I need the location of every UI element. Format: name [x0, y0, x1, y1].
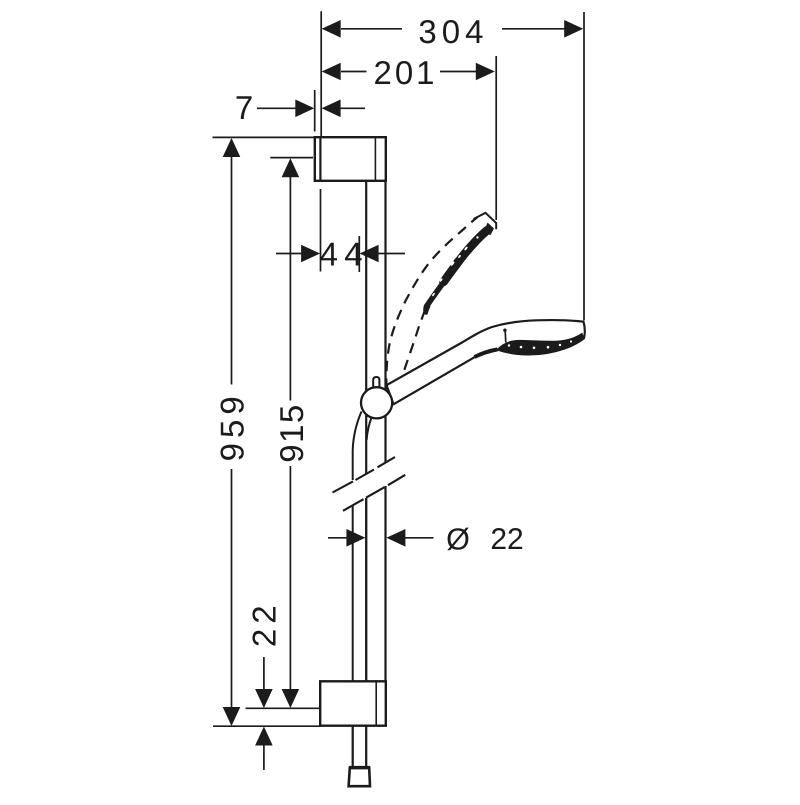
white nicks in raised stipple band [432, 236, 479, 296]
slider knob circle [361, 387, 392, 418]
arrowhead 959 top [223, 138, 241, 157]
spray select button tick [504, 331, 507, 343]
slider knob pin [373, 377, 379, 388]
dimension line 304 [341, 28, 402, 30]
dimension line 22 vertical [263, 657, 265, 690]
rail lower segment (break to bottom bracket) [366, 486, 385, 681]
svg-text:959: 959 [213, 391, 250, 461]
lowered head spray face stipple band [498, 333, 585, 355]
rail upper segment (bracket to break) [366, 181, 385, 474]
extension line left (wall plane x=321) [320, 11, 322, 137]
arrowhead 304 right [564, 20, 583, 38]
top wall bracket [315, 137, 386, 181]
hose from slider to break [353, 412, 372, 481]
svg-text:915: 915 [273, 403, 310, 463]
arrowhead 915 top [282, 158, 300, 177]
arrowhead 22 top (points down) [255, 689, 273, 708]
raised band lower tail blob [423, 303, 430, 315]
arrowhead dia22 right [386, 529, 405, 547]
arrowhead 201 left [322, 63, 341, 81]
extension line right for 201 (x=496) [495, 56, 497, 220]
dimension line diameter 22 [328, 537, 347, 539]
dimension line 44 [276, 253, 302, 255]
reference line top (y=137) [213, 136, 315, 138]
raised band top wedge to tip [484, 223, 495, 236]
hose below bottom bracket [353, 726, 367, 766]
arrowhead 915 bottom [282, 689, 300, 708]
svg-text:7: 7 [235, 89, 253, 126]
nut thick top edge [349, 766, 370, 769]
reference line 915 top (y=157.6) [270, 157, 313, 159]
raised handshower: spray face stipple band [444, 230, 488, 282]
raised handshower: dashed left curve [386, 217, 477, 389]
arrowhead 22 bottom (points up) [255, 727, 273, 746]
arrowhead 304 left [322, 20, 341, 38]
dimension line 7 [257, 107, 297, 109]
reference line A bottom (y=708.3) [246, 707, 321, 709]
white speckles in lowered stipple band [508, 340, 572, 349]
raised handshower: solid tip [474, 213, 497, 229]
raised handshower: dashed right curve [401, 302, 429, 382]
lowered handshower body (handle + head), white filled [387, 320, 585, 404]
reference line B bottom (y=726.2) [213, 725, 321, 727]
pipe break symbol (two diagonal lines) [333, 457, 406, 511]
svg-text:Ø: Ø [446, 522, 470, 556]
extension line right for 304 (x=584) [583, 12, 585, 321]
svg-text:201: 201 [373, 54, 437, 91]
dark chin stroke under head [475, 349, 498, 357]
svg-text:44: 44 [320, 235, 369, 272]
extension line right for 44 (x=359.3) [358, 236, 360, 272]
hose conical nut [349, 768, 370, 786]
arrowhead 959 bottom [223, 707, 241, 726]
arrowhead 7 left [295, 100, 314, 118]
svg-text:22: 22 [490, 523, 523, 556]
arrowhead 44 right [360, 245, 379, 263]
bottom wall bracket [320, 681, 386, 725]
hose below break to nut [353, 498, 367, 766]
dimension line 915 vertical [289, 177, 291, 401]
arrowhead 44 left [301, 245, 320, 263]
svg-text:22: 22 [245, 600, 282, 647]
arrowhead dia22 left [346, 529, 365, 547]
arrowhead 7 right [322, 100, 341, 118]
dimension line 959 vertical [231, 156, 233, 385]
svg-text:304: 304 [418, 13, 488, 50]
extension line left for 44 (x=320.5) [320, 189, 322, 272]
raised band middle bulge [448, 252, 467, 272]
dimension line 201 [341, 71, 367, 73]
extension line for 7 (x=314.7) [314, 90, 316, 132]
arrowhead 201 right [476, 63, 495, 81]
